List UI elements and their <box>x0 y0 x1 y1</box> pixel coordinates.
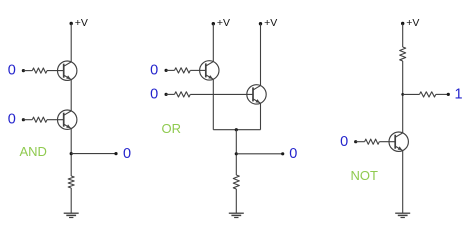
resistor R6 <box>233 175 239 189</box>
svg-text:OR: OR <box>162 121 182 136</box>
power +V AND <box>70 17 88 29</box>
resistor R5 <box>175 92 191 97</box>
resistor R3 <box>68 176 74 188</box>
wire input D to R5 <box>166 93 174 95</box>
wire input E to R9 <box>356 141 365 143</box>
svg-text:NOT: NOT <box>351 168 379 183</box>
svg-text:0: 0 <box>123 146 131 162</box>
transistor Q3 <box>200 61 219 80</box>
ground NOT <box>395 213 410 217</box>
svg-text:0: 0 <box>340 134 348 150</box>
svg-text:+V: +V <box>406 17 419 29</box>
node input A terminal <box>22 69 25 72</box>
wire Q1 emitter to Q2 collector <box>70 80 72 111</box>
resistor R7 <box>400 47 406 61</box>
wire input C to R4 <box>166 69 174 71</box>
wire AND Vcc to Q1 collector <box>70 24 72 62</box>
node emitter junction <box>235 128 238 131</box>
wire R5 to Q4 base <box>190 93 253 95</box>
node input C terminal <box>165 69 168 72</box>
wire junction to R6 <box>235 130 237 175</box>
power +V OR2 <box>259 17 277 29</box>
node input E terminal <box>354 140 357 143</box>
power +V NOT <box>401 17 419 29</box>
wire emitter join <box>213 129 260 131</box>
wire R7 to Q5 collector <box>402 61 404 133</box>
transistor Q5 <box>389 132 408 151</box>
svg-text:0: 0 <box>150 62 158 78</box>
svg-text:+V: +V <box>264 17 277 29</box>
wire AND output <box>71 153 116 155</box>
wire Q2 emitter to R3 <box>70 129 72 176</box>
wire junction to R8 <box>403 93 420 95</box>
wire input B to R2 <box>23 119 32 121</box>
svg-text:1: 1 <box>455 87 463 103</box>
wire Q5 emitter to ground <box>402 151 404 214</box>
wire R8 to output <box>436 93 449 95</box>
node input B terminal <box>22 118 25 121</box>
wire OR output <box>236 153 282 155</box>
node OR output junction <box>235 152 238 155</box>
wire R1 to Q1 base <box>47 70 64 72</box>
ground OR <box>229 213 244 217</box>
resistor R4 <box>175 68 191 73</box>
wire R3 to ground <box>70 188 72 213</box>
resistor R1 <box>32 68 47 73</box>
wire R4 to Q3 base <box>190 69 206 71</box>
resistor R9 <box>365 139 380 144</box>
svg-text:+V: +V <box>217 17 230 29</box>
svg-text:AND: AND <box>20 144 47 159</box>
wire Q4 emitter down <box>260 103 262 129</box>
svg-text:0: 0 <box>8 63 16 79</box>
node input D terminal <box>165 93 168 96</box>
wire Q3 emitter down <box>212 79 214 129</box>
svg-text:0: 0 <box>8 112 16 128</box>
node AND output junction <box>70 152 73 155</box>
svg-text:+V: +V <box>75 17 88 29</box>
svg-text:0: 0 <box>289 146 297 162</box>
node NOT output terminal <box>447 93 450 96</box>
wire OR Vcc1 to Q3 collector <box>212 24 214 62</box>
node OR output terminal <box>281 152 284 155</box>
resistor R2 <box>32 117 47 122</box>
wire R6 to ground <box>235 189 237 213</box>
transistor Q2 <box>57 110 76 129</box>
wire NOT Vcc to R7 <box>402 24 404 48</box>
power +V OR1 <box>212 17 230 29</box>
wire R9 to Q5 base <box>379 141 395 143</box>
node AND output terminal <box>114 152 117 155</box>
svg-text:0: 0 <box>150 86 158 102</box>
transistor Q1 <box>57 61 76 80</box>
ground AND <box>64 213 79 217</box>
transistor Q4 <box>247 85 266 104</box>
resistor R8 <box>420 92 436 97</box>
wire OR Vcc2 to Q4 collector <box>260 24 262 86</box>
wire input A to R1 <box>23 70 32 72</box>
node NOT output junction <box>401 93 404 96</box>
wire R2 to Q2 base <box>47 119 64 121</box>
